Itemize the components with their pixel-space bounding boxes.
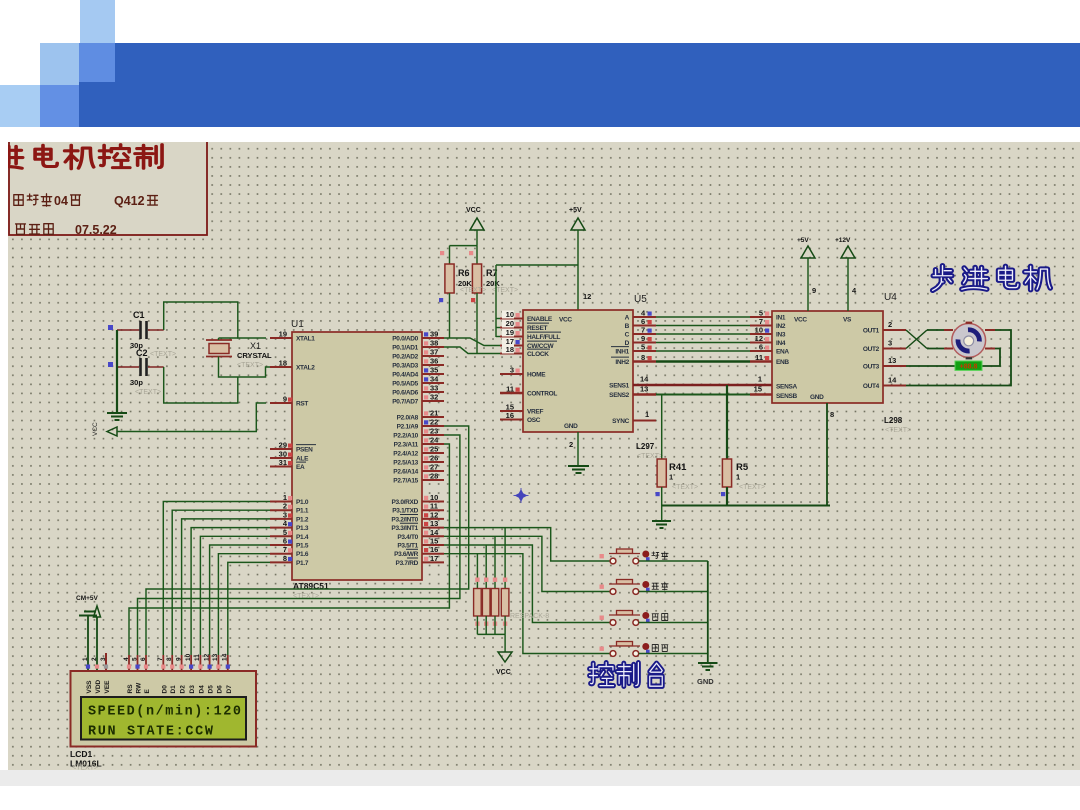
junction marker [515, 489, 528, 502]
push button 1 [600, 554, 604, 558]
svg-text:14: 14 [430, 528, 439, 537]
svg-text:D1: D1 [170, 685, 177, 694]
svg-text:SENSA: SENSA [776, 384, 798, 391]
svg-text:2: 2 [888, 320, 892, 329]
svg-text:04: 04 [54, 194, 68, 208]
wire [444, 536, 610, 591]
svg-text:P3.4/T0: P3.4/T0 [397, 534, 418, 541]
wire [906, 330, 927, 349]
svg-text:6: 6 [140, 657, 147, 661]
svg-text:+5V: +5V [797, 237, 809, 244]
svg-text:29: 29 [279, 441, 287, 450]
wire crystal top [218, 338, 220, 340]
wire [129, 444, 449, 655]
wire 5-phase row [633, 350, 656, 352]
svg-text:13: 13 [212, 653, 219, 661]
label 步进电机 [933, 266, 952, 291]
wire button 4 to gnd [639, 653, 708, 655]
svg-text:14: 14 [640, 375, 649, 384]
svg-text:ENB: ENB [776, 359, 789, 366]
bottom strip [0, 770, 1080, 786]
svg-text:1: 1 [736, 473, 740, 482]
wire [661, 506, 663, 522]
svg-text:P2.6/A14: P2.6/A14 [393, 469, 418, 476]
wire to motor [927, 348, 944, 350]
svg-text:11: 11 [506, 385, 514, 394]
svg-text:R5: R5 [736, 462, 749, 473]
wire R41 top [661, 395, 663, 460]
svg-text:P0.3/AD3: P0.3/AD3 [392, 363, 418, 370]
svg-text:1: 1 [82, 657, 89, 661]
header band [115, 43, 1080, 127]
wire SENS2 row [633, 393, 656, 395]
svg-text:IN1: IN1 [776, 315, 786, 322]
svg-text:<TEXT>: <TEXT> [150, 351, 176, 358]
wire XTAL2 net [164, 367, 238, 403]
svg-text:X1: X1 [250, 341, 261, 351]
wire [444, 554, 610, 654]
svg-text:P0.7/AD7: P0.7/AD7 [392, 399, 418, 406]
svg-text:35: 35 [430, 366, 438, 375]
wire [906, 330, 1011, 386]
wire R7 bottom [476, 293, 478, 354]
svg-text:5: 5 [131, 657, 138, 661]
svg-text:3: 3 [888, 339, 892, 348]
svg-text:P3.3/INT1: P3.3/INT1 [391, 525, 418, 532]
svg-text:13: 13 [888, 356, 896, 365]
svg-text:U4: U4 [884, 292, 897, 303]
wire [656, 350, 750, 352]
wire respack 3 top [494, 536, 496, 588]
label 控制台 [590, 663, 614, 686]
svg-text:P0.4/AD4: P0.4/AD4 [392, 372, 418, 379]
wire [656, 316, 750, 318]
svg-text:9: 9 [283, 395, 287, 404]
wire respack bottom [504, 616, 506, 634]
svg-text:RUN STATE:CCW: RUN STATE:CCW [88, 725, 214, 740]
svg-text:P2.5/A13: P2.5/A13 [393, 460, 418, 467]
svg-text:19: 19 [279, 330, 287, 339]
svg-text:C1: C1 [133, 310, 145, 320]
svg-text:37: 37 [430, 348, 438, 357]
svg-text:D: D [625, 340, 630, 347]
svg-text:P3.6/WR: P3.6/WR [394, 551, 419, 558]
wire [496, 318, 500, 320]
svg-text:14: 14 [888, 376, 897, 385]
svg-text:VEE: VEE [104, 680, 111, 694]
svg-text:2: 2 [91, 657, 98, 661]
svg-text:P1.7: P1.7 [296, 560, 309, 567]
title box [9, 141, 207, 235]
wire [656, 333, 750, 335]
wire R41 bottom [661, 487, 663, 506]
svg-text:L297: L297 [636, 442, 655, 451]
svg-text:P1.2: P1.2 [296, 516, 309, 523]
svg-text:IN2: IN2 [776, 323, 786, 330]
svg-text:3: 3 [283, 510, 287, 519]
wire R5 bottom [726, 487, 728, 506]
svg-text:5: 5 [641, 343, 645, 352]
svg-text:8: 8 [641, 353, 645, 362]
wire [200, 536, 270, 655]
wire [172, 510, 270, 655]
svg-text:11: 11 [755, 353, 763, 362]
svg-text:C: C [625, 332, 630, 339]
wire R7 top [476, 246, 478, 264]
svg-text:VCC: VCC [794, 317, 807, 324]
svg-text:E: E [144, 689, 151, 694]
svg-text:ALE: ALE [296, 456, 309, 463]
svg-text:D6: D6 [216, 685, 223, 694]
driver U5 L297 [523, 310, 633, 432]
wire respack 1 top [476, 554, 478, 589]
svg-text:VCC: VCC [559, 317, 572, 324]
svg-text:P3.0/RXD: P3.0/RXD [391, 499, 418, 506]
U1 right pins [422, 337, 444, 339]
wire respack 2 top [485, 545, 487, 589]
svg-text:P1.4: P1.4 [296, 534, 309, 541]
svg-text:P2.4/A12: P2.4/A12 [393, 451, 418, 458]
push button 4 [600, 647, 604, 651]
svg-text:INH2: INH2 [615, 359, 629, 366]
wire [191, 528, 270, 655]
svg-text:R6: R6 [458, 268, 470, 278]
wire [450, 245, 478, 247]
wire [707, 561, 709, 663]
wire P0.1-CLOCK [444, 347, 500, 354]
svg-text:ENA: ENA [776, 349, 789, 356]
wire [656, 342, 750, 344]
svg-text:SENSB: SENSB [776, 393, 798, 400]
svg-text:P1.1: P1.1 [296, 508, 309, 515]
stepper motor [952, 324, 986, 358]
svg-text:14: 14 [222, 653, 229, 661]
wire ground vertical [116, 330, 118, 412]
wire [656, 325, 750, 327]
svg-text:1: 1 [758, 375, 762, 384]
svg-text:OUT2: OUT2 [863, 346, 880, 353]
svg-text:SENS2: SENS2 [609, 392, 630, 399]
wire P0.0-CW/CCW [444, 338, 500, 346]
svg-text:13: 13 [430, 519, 438, 528]
svg-text:P2.7/A15: P2.7/A15 [393, 478, 418, 485]
wire to motor [927, 329, 944, 331]
svg-text:07.5.22: 07.5.22 [75, 223, 117, 237]
svg-text:6: 6 [283, 537, 287, 546]
svg-text:P0.5/AD5: P0.5/AD5 [392, 381, 418, 388]
wire LCD VSS [87, 616, 89, 672]
wire 8-phase row [633, 360, 656, 363]
wire +5V stem [577, 230, 579, 311]
wire R6 top [449, 246, 451, 264]
svg-text:11: 11 [430, 502, 438, 511]
wire [504, 634, 506, 652]
svg-text:9: 9 [175, 657, 182, 661]
svg-text:SYNC: SYNC [612, 418, 629, 425]
wire [163, 502, 270, 656]
wire VS pin4 [847, 258, 849, 311]
svg-text:INH1: INH1 [615, 349, 629, 356]
svg-text:GND: GND [697, 677, 714, 686]
svg-text:P0.0/AD0: P0.0/AD0 [392, 336, 418, 343]
svg-text:OUT1: OUT1 [863, 328, 880, 335]
ground (U5) [568, 465, 589, 467]
wire [219, 357, 271, 378]
svg-text:P1.3: P1.3 [296, 525, 309, 532]
wire [218, 554, 270, 655]
svg-text:8: 8 [830, 410, 834, 419]
svg-text:13: 13 [640, 385, 648, 394]
svg-text:ENABLE: ENABLE [527, 316, 553, 323]
svg-text:36: 36 [430, 357, 438, 366]
svg-text:<TEXT>: <TEXT> [237, 362, 263, 369]
svg-text:P2.3/A11: P2.3/A11 [394, 442, 419, 449]
svg-text:CRYSTAL: CRYSTAL [237, 351, 272, 360]
wire [444, 545, 610, 623]
wire [182, 519, 270, 655]
svg-text:D3: D3 [189, 685, 196, 694]
svg-text:RW: RW [136, 682, 143, 694]
svg-text:A: A [625, 315, 630, 322]
svg-text:25: 25 [430, 445, 438, 454]
svg-text:24: 24 [430, 436, 439, 445]
svg-text:+88.8: +88.8 [960, 363, 978, 370]
wire [138, 435, 460, 655]
svg-text:SENS1: SENS1 [609, 383, 630, 390]
wire [656, 360, 750, 363]
svg-text:6: 6 [759, 343, 763, 352]
svg-text:10: 10 [430, 493, 438, 502]
wire pull-up branch [495, 265, 497, 337]
svg-text:9: 9 [812, 286, 816, 295]
svg-text:<TEXT>: <TEXT> [460, 287, 486, 294]
svg-text:1: 1 [669, 473, 673, 482]
svg-text:<TEXT>: <TEXT> [135, 389, 161, 396]
svg-text:<TEXT>: <TEXT> [672, 484, 698, 491]
wire respack 4 top [504, 528, 506, 589]
wire RST net [117, 403, 266, 432]
svg-text:P2.2/A10: P2.2/A10 [393, 433, 418, 440]
svg-text:2: 2 [283, 502, 287, 511]
wire U5 GND [577, 432, 579, 466]
wire [906, 330, 927, 349]
wire C1 left [117, 329, 139, 331]
svg-text:34: 34 [430, 375, 439, 384]
svg-text:8: 8 [283, 554, 287, 563]
svg-text:26: 26 [430, 454, 438, 463]
svg-text:4: 4 [123, 657, 130, 661]
svg-text:33: 33 [430, 384, 438, 393]
wire [656, 394, 750, 396]
svg-text:39: 39 [430, 330, 438, 339]
U1 left pins [270, 337, 292, 339]
wire 4-phase row [633, 316, 656, 318]
svg-text:28: 28 [430, 472, 438, 481]
svg-text:VCC: VCC [496, 669, 511, 676]
wire respack bottom [485, 616, 487, 634]
svg-text:VREF: VREF [527, 409, 543, 416]
svg-text:CONTROL: CONTROL [527, 391, 557, 398]
svg-text:10: 10 [506, 310, 514, 319]
svg-text:HALF/FULL: HALF/FULL [527, 334, 560, 341]
svg-text:B: B [625, 323, 630, 330]
svg-text:16: 16 [506, 411, 514, 420]
svg-text:U5: U5 [634, 294, 647, 305]
wire [219, 337, 238, 339]
svg-text:RS: RS [127, 684, 134, 694]
svg-text:D7: D7 [226, 685, 233, 694]
svg-text:OSC: OSC [527, 417, 541, 424]
svg-text:VS: VS [843, 317, 852, 324]
svg-text:CLOCK: CLOCK [527, 351, 549, 358]
svg-text:P0.6/AD6: P0.6/AD6 [392, 390, 418, 397]
wire button 3 to gnd [639, 622, 708, 624]
svg-text:R41: R41 [669, 462, 687, 473]
svg-text:8: 8 [166, 657, 173, 661]
svg-text:L298: L298 [884, 416, 903, 425]
svg-text:18: 18 [279, 359, 287, 368]
svg-text:IN3: IN3 [776, 332, 786, 339]
svg-text:XTAL1: XTAL1 [296, 336, 315, 343]
svg-text:VDD: VDD [95, 679, 102, 693]
subtitle line 2 [16, 224, 26, 234]
svg-text:IN4: IN4 [776, 340, 786, 347]
svg-text:27: 27 [430, 463, 438, 472]
svg-text:P2.0/A8: P2.0/A8 [397, 415, 419, 422]
svg-text:20: 20 [506, 319, 514, 328]
svg-text:HOME: HOME [527, 372, 546, 379]
svg-text:SPEED(n/min):120: SPEED(n/min):120 [88, 705, 241, 720]
svg-text:D0: D0 [161, 685, 168, 694]
wire [228, 562, 270, 655]
svg-text:1: 1 [645, 410, 649, 419]
svg-text:U1: U1 [291, 319, 304, 330]
wire 9-phase row [633, 342, 656, 344]
svg-text:P1.0: P1.0 [296, 499, 309, 506]
wire VCC stem [476, 230, 478, 246]
svg-text:P3.1/TXD: P3.1/TXD [392, 508, 418, 515]
wire [662, 505, 830, 507]
svg-text:32: 32 [430, 393, 438, 402]
subtitle line 1 [14, 195, 23, 206]
wire [906, 349, 1000, 367]
svg-text:<TEXT>: <TEXT> [739, 484, 765, 491]
title text (clipped) [0, 146, 23, 168]
wire LCD VDD [96, 617, 98, 671]
svg-text:15: 15 [430, 537, 438, 546]
svg-text:16: 16 [430, 545, 438, 554]
wire [496, 336, 500, 338]
push button 2 [600, 585, 604, 589]
svg-text:P2.1/A9: P2.1/A9 [397, 424, 419, 431]
svg-text:23: 23 [430, 427, 438, 436]
svg-text:21: 21 [430, 409, 438, 418]
wire R5 top [726, 385, 728, 459]
LCD screen [81, 697, 246, 740]
svg-text:18: 18 [506, 345, 514, 354]
svg-text:CM+5V: CM+5V [76, 595, 99, 602]
wire [444, 528, 610, 561]
wire C2 right [148, 366, 164, 368]
svg-text:15: 15 [754, 385, 762, 394]
svg-text:OUT4: OUT4 [863, 383, 880, 390]
svg-text:RESPACK-8: RESPACK-8 [510, 613, 549, 620]
svg-text:12: 12 [203, 653, 210, 661]
svg-text:GND: GND [564, 423, 578, 430]
svg-text:P1.5: P1.5 [296, 543, 309, 550]
wire respack bottom [494, 616, 496, 634]
svg-text:38: 38 [430, 339, 438, 348]
svg-text:EA: EA [296, 464, 305, 471]
svg-text:D4: D4 [198, 685, 205, 694]
svg-text:LCD1: LCD1 [70, 749, 92, 759]
U4 outputs [883, 329, 906, 331]
svg-text:+12V: +12V [835, 237, 851, 244]
svg-text:VSS: VSS [86, 680, 93, 694]
svg-text:5: 5 [283, 528, 287, 537]
wire C1 right [148, 329, 164, 331]
svg-text:+5V: +5V [569, 207, 582, 214]
wire [496, 264, 578, 266]
svg-text:P0.1/AD1: P0.1/AD1 [392, 345, 418, 352]
svg-text:VCC: VCC [92, 422, 99, 436]
svg-text:11: 11 [194, 654, 201, 661]
svg-text:C2: C2 [136, 348, 148, 358]
svg-text:P3.7/RD: P3.7/RD [396, 560, 419, 567]
wire 6-phase row [633, 325, 656, 327]
svg-text:RST: RST [296, 401, 308, 408]
wire [146, 426, 469, 655]
svg-text:30p: 30p [130, 378, 143, 387]
svg-text:19: 19 [506, 328, 514, 337]
wire C2 left [117, 366, 139, 368]
svg-text:1: 1 [283, 493, 287, 502]
svg-text:12: 12 [430, 510, 438, 519]
driver U4 L298 [772, 311, 883, 403]
svg-text:10: 10 [185, 653, 192, 661]
power terminal (RST) [107, 427, 117, 436]
wire 7-phase row [633, 333, 656, 335]
svg-text:Q412: Q412 [114, 194, 145, 208]
wire SENS1 row [633, 384, 772, 386]
push button 3 [600, 616, 604, 620]
svg-text:7: 7 [283, 545, 287, 554]
svg-text:<TEXT>: <TEXT> [885, 427, 911, 434]
motor rpm display [955, 361, 982, 370]
svg-text:22: 22 [430, 418, 438, 427]
power VCC (down arrow) [498, 652, 512, 662]
svg-text:P3.5/T1: P3.5/T1 [397, 543, 418, 550]
svg-text:D5: D5 [208, 685, 215, 694]
wire [496, 327, 500, 329]
wire button 2 to gnd [639, 591, 708, 593]
wire [477, 633, 505, 635]
svg-text:VCC: VCC [466, 207, 481, 214]
svg-text:P3.2/INT0: P3.2/INT0 [391, 516, 418, 523]
svg-text:D2: D2 [180, 685, 187, 694]
wire [210, 545, 270, 655]
svg-text:PSEN: PSEN [296, 447, 313, 454]
wire respack bottom [476, 616, 478, 634]
svg-text:GND: GND [810, 394, 824, 401]
svg-text:P1.6: P1.6 [296, 551, 309, 558]
svg-text:XTAL2: XTAL2 [296, 365, 315, 372]
svg-text:7: 7 [157, 657, 164, 661]
U5 SYNC pin 1 [633, 420, 656, 422]
svg-text:3: 3 [510, 366, 514, 375]
svg-text:12: 12 [583, 292, 591, 301]
svg-text:3: 3 [100, 657, 107, 661]
